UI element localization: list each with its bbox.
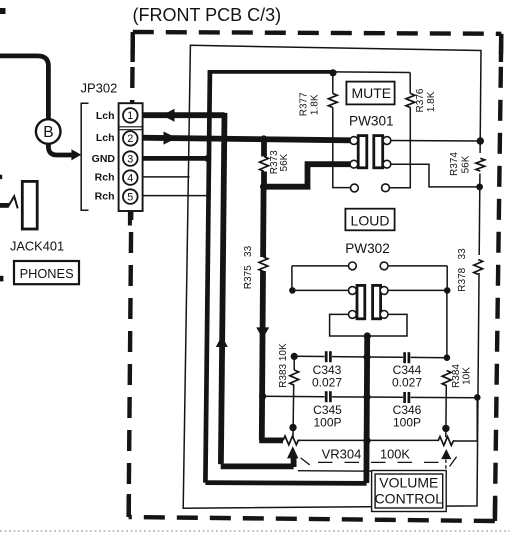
svg-text:100K: 100K	[380, 446, 410, 461]
svg-text:0.027: 0.027	[312, 375, 342, 389]
svg-text:VR304: VR304	[322, 446, 362, 461]
svg-text:Rch: Rch	[95, 172, 115, 184]
svg-text:100P: 100P	[393, 415, 421, 429]
svg-text:(FRONT PCB C/3): (FRONT PCB C/3)	[133, 5, 282, 25]
svg-text:1.8K: 1.8K	[309, 94, 320, 115]
svg-text:PW302: PW302	[345, 241, 390, 256]
svg-text:1.8K: 1.8K	[426, 91, 437, 112]
svg-text:GND: GND	[92, 153, 116, 165]
svg-text:CONTROL: CONTROL	[375, 490, 444, 506]
svg-text:R375 33: R375 33	[243, 245, 254, 289]
svg-text:PW301: PW301	[349, 114, 394, 129]
svg-text:B: B	[43, 124, 53, 141]
svg-text:4: 4	[127, 172, 133, 184]
svg-text:JACK401: JACK401	[10, 238, 64, 253]
svg-text:LOUD: LOUD	[351, 212, 390, 228]
svg-text:56K: 56K	[279, 153, 290, 171]
svg-text:PHONES: PHONES	[20, 266, 74, 281]
svg-text:10K: 10K	[462, 367, 473, 385]
svg-text:VOLUME: VOLUME	[379, 475, 438, 491]
svg-text:1: 1	[127, 110, 133, 122]
svg-text:Lch: Lch	[96, 132, 115, 144]
svg-text:0.027: 0.027	[392, 375, 422, 389]
svg-text:R374: R374	[449, 152, 460, 176]
svg-text:2: 2	[127, 133, 133, 145]
svg-text:100P: 100P	[313, 415, 341, 429]
svg-text:R383 10K: R383 10K	[278, 343, 289, 388]
svg-text:R384: R384	[451, 364, 462, 388]
svg-text:JP302: JP302	[81, 81, 118, 96]
svg-text:Lch: Lch	[96, 110, 115, 122]
svg-text:R376: R376	[415, 88, 426, 112]
svg-text:Rch: Rch	[95, 191, 115, 203]
svg-text:R378 33: R378 33	[457, 248, 468, 292]
svg-text:R377: R377	[299, 92, 310, 116]
svg-text:3: 3	[127, 153, 133, 165]
svg-text:56K: 56K	[460, 155, 471, 173]
svg-text:5: 5	[127, 191, 133, 203]
svg-text:MUTE: MUTE	[351, 85, 391, 101]
